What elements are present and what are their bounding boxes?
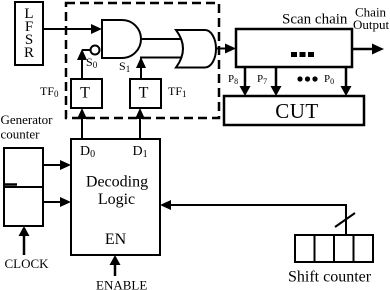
Generator counter box [4, 148, 43, 226]
svg-text:ENABLE: ENABLE [96, 278, 147, 290]
wire AND output to OR top input [138, 38, 186, 40]
OR gate [176, 30, 216, 68]
svg-text:Output: Output [353, 17, 390, 32]
svg-text:R: R [24, 45, 34, 61]
wire chain output arrow [352, 44, 384, 55]
svg-text:Logic: Logic [98, 191, 135, 208]
svg-text:Shift counter: Shift counter [288, 269, 372, 286]
Decoding Logic box [71, 139, 160, 255]
LFSR block [15, 2, 43, 65]
wire shift counter to decoding logic [160, 200, 346, 235]
wire P7: scan chain to CUT [271, 67, 282, 96]
wire LFSR to AND gate input [43, 24, 102, 34]
inverter bubble on AND lower input [91, 46, 100, 55]
label Generator counter [1, 112, 54, 142]
bus slash mark [335, 213, 355, 227]
wire P8: scan chain to CUT [240, 67, 251, 96]
Shift counter box [295, 235, 373, 262]
wire ENABLE input [110, 255, 121, 276]
CUT box [224, 96, 364, 125]
wire D0: decoding logic to TF0 [77, 108, 87, 139]
wire S0: T flip-flop TF0 output up to bubble [77, 49, 91, 79]
wire P0: scan chain to CUT [341, 67, 352, 96]
svg-text:Decoding: Decoding [86, 174, 148, 191]
svg-text:Scan chain: Scan chain [282, 12, 348, 28]
AND gate [102, 20, 141, 58]
svg-text:EN: EN [105, 231, 127, 248]
svg-text:T: T [80, 85, 90, 102]
wire S1: T flip-flop TF1 output up to OR input line [136, 57, 146, 79]
dashed module boundary box [66, 3, 219, 118]
wire S1 node to OR bottom input [140, 57, 186, 59]
wire OR output to scan chain [215, 44, 236, 54]
T flip-flop TF1 box [130, 79, 161, 108]
wire generator counter to decoding logic (lower) [43, 197, 71, 207]
Scan chain box [236, 29, 352, 67]
T flip-flop TF0 box [71, 79, 102, 108]
svg-text:Generator: Generator [1, 112, 54, 127]
svg-text:CLOCK: CLOCK [5, 256, 50, 271]
wire CLOCK input [19, 226, 30, 255]
svg-text:T: T [139, 85, 149, 102]
ellipsis dots between P lines [297, 76, 317, 81]
wire D1: decoding logic to TF1 [135, 108, 145, 139]
wire generator counter to decoding logic (upper) [43, 160, 71, 170]
label Chain Output [353, 5, 390, 33]
svg-text:counter: counter [1, 127, 41, 142]
svg-text:CUT: CUT [275, 99, 319, 123]
